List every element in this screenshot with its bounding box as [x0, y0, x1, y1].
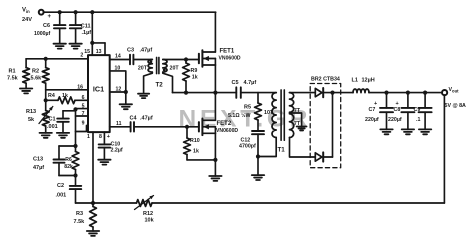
- svg-text:Vout: Vout: [449, 87, 460, 94]
- pin 7 wire: [76, 111, 89, 117]
- svg-text:IC1: IC1: [93, 84, 104, 93]
- wire T1 secondary bottom to BR2: [290, 138, 316, 158]
- ground below C12: [252, 175, 264, 180]
- rectifier BR2 dashed box: [310, 77, 341, 168]
- svg-text:220µf: 220µf: [388, 117, 402, 123]
- svg-text:FET1: FET1: [220, 49, 235, 55]
- svg-text:.001: .001: [47, 124, 58, 130]
- junction pins 15/13: [90, 41, 94, 45]
- wire +24V top rail: [44, 11, 216, 13]
- svg-text:R2: R2: [32, 68, 39, 74]
- svg-text:C2: C2: [57, 183, 64, 189]
- transformer T1 primary 10T: [258, 93, 276, 157]
- pin 11 wire: [110, 121, 131, 127]
- ground below C10: [98, 160, 110, 165]
- capacitor C4 .47uF: [130, 115, 153, 131]
- resistor R2 5.6k: [31, 59, 50, 101]
- svg-text:.1: .1: [416, 117, 420, 123]
- watermark: [179, 105, 312, 132]
- junction BR2 output: [330, 91, 334, 95]
- svg-text:9: 9: [82, 120, 85, 126]
- pin 13 wire: [92, 43, 105, 55]
- ground below C11: [69, 44, 81, 49]
- pin 6 label: [82, 95, 85, 101]
- svg-text:C6: C6: [43, 23, 50, 29]
- svg-text:T1: T1: [278, 147, 286, 154]
- svg-text:6: 6: [82, 95, 85, 101]
- junction R10 top: [185, 125, 189, 129]
- svg-text:.47µf: .47µf: [140, 115, 153, 121]
- transistor FET1 VN0600D: [199, 49, 241, 67]
- wire pins 5-7-9 vertical: [75, 109, 77, 146]
- svg-text:R12: R12: [143, 211, 153, 217]
- pin 16 wire: [46, 84, 88, 90]
- capacitor C6 1000uF: [34, 12, 65, 44]
- svg-text:5k: 5k: [28, 117, 35, 123]
- junction C13/R6 bottom: [73, 173, 77, 177]
- junction C9: [423, 91, 427, 95]
- capacitor C10 2.2uF: [99, 141, 123, 159]
- node Vout output terminal: [442, 87, 466, 109]
- ground below C6: [54, 44, 66, 49]
- svg-text:R13: R13: [26, 109, 36, 115]
- ground below C9: [419, 129, 431, 134]
- junction R2 top: [44, 57, 48, 61]
- wire snubber to ground: [257, 157, 259, 176]
- transformer T2 primary 20T: [138, 60, 152, 94]
- svg-text:R5: R5: [244, 105, 251, 111]
- svg-text:220µf: 220µf: [365, 117, 379, 123]
- ground below pins 10/12: [120, 104, 132, 109]
- resistor R5 5.1ohm: [228, 93, 261, 131]
- svg-text:.47µf: .47µf: [140, 48, 153, 54]
- label T2: [156, 81, 164, 88]
- svg-text:T2: T2: [156, 81, 164, 88]
- inductor L1 12uH: [352, 78, 375, 93]
- svg-text:7.5k: 7.5k: [74, 219, 86, 225]
- junction R2/R4/R13: [44, 98, 48, 102]
- transformer T1 secondary upper 7T: [290, 93, 301, 114]
- pin 8 wire: [99, 132, 110, 144]
- svg-text:FET2: FET2: [217, 121, 232, 127]
- svg-text:C7: C7: [369, 107, 376, 113]
- junction at IC supply drop: [90, 10, 94, 14]
- wire FET1 source to node A: [214, 65, 216, 93]
- svg-text:C5: C5: [232, 80, 239, 86]
- wire Vin to IC1 pins 15 13: [91, 12, 93, 43]
- wire BR2 bottom cathode: [323, 93, 332, 157]
- transformer T2 secondary 20T: [163, 60, 180, 93]
- svg-text:+: +: [374, 101, 377, 107]
- wire T1 secondary top to BR2: [290, 92, 316, 94]
- node Vin input terminal: [22, 8, 44, 24]
- resistor R9 1k: [183, 60, 198, 93]
- resistor R6 82k: [64, 146, 79, 176]
- junction FET2 source: [213, 158, 217, 162]
- svg-text:R1: R1: [9, 68, 16, 74]
- capacitor C7 220uF: [365, 93, 393, 130]
- svg-text:4700pf: 4700pf: [239, 144, 256, 150]
- svg-text:82k: 82k: [64, 164, 73, 170]
- svg-text:1k: 1k: [193, 149, 199, 155]
- pin 12 wire: [110, 86, 126, 92]
- capacitor C1 .001: [47, 111, 76, 133]
- wire C3 to T2: [133, 59, 152, 61]
- svg-text:C13: C13: [33, 157, 43, 163]
- junction at C11: [74, 10, 78, 14]
- svg-text:5V @ 8A: 5V @ 8A: [445, 103, 467, 109]
- junction R9 bottom: [184, 91, 188, 95]
- svg-text:VN0600D: VN0600D: [219, 56, 241, 62]
- wire T1 center tap: [290, 113, 302, 127]
- svg-text:16: 16: [77, 84, 83, 90]
- svg-text:1: 1: [87, 134, 90, 140]
- svg-text:1000µf: 1000µf: [34, 31, 51, 37]
- ground below R1: [20, 89, 32, 94]
- wire C5 to T1: [241, 92, 276, 94]
- pin 9 wire: [76, 120, 89, 131]
- svg-text:2: 2: [80, 53, 83, 59]
- diode BR2 top: [315, 88, 323, 97]
- svg-text:7: 7: [82, 111, 85, 117]
- svg-text:C4: C4: [130, 115, 138, 121]
- capacitor C9 .1: [414, 93, 432, 130]
- junction at C6: [58, 10, 62, 14]
- ground below FET2: [209, 176, 221, 181]
- svg-text:2.2µf: 2.2µf: [111, 147, 123, 153]
- wire R10 bottom to FET2 source: [187, 159, 215, 161]
- wire L1 to Vout: [369, 92, 442, 94]
- svg-text:R6: R6: [65, 157, 72, 163]
- svg-text:L1: L1: [352, 78, 358, 84]
- svg-text:VN0600D: VN0600D: [216, 128, 238, 134]
- resistor R1 7.5k: [7, 59, 30, 89]
- resistor R3 7.5k: [74, 203, 97, 231]
- transistor FET2 VN0600D: [199, 119, 239, 136]
- wire BR2 top cathode: [323, 92, 332, 94]
- svg-text:10T: 10T: [264, 110, 274, 116]
- wire Vout feedback drop: [443, 95, 445, 203]
- capacitor C8 220uF: [388, 93, 414, 130]
- svg-text:11: 11: [116, 121, 122, 127]
- pin 10 wire: [110, 65, 126, 92]
- ground below R13: [40, 133, 52, 138]
- pin 2 wire: [26, 53, 88, 59]
- transformer T2 core: [157, 57, 159, 73]
- junction node A: [213, 91, 217, 95]
- svg-text:5.1Ω ½W: 5.1Ω ½W: [228, 112, 251, 119]
- svg-text:C1: C1: [49, 116, 56, 122]
- diode BR2 bottom: [315, 152, 323, 161]
- svg-text:1k: 1k: [62, 93, 68, 99]
- svg-text:+: +: [396, 101, 399, 107]
- pin 15 wire: [84, 43, 92, 55]
- svg-text:R10: R10: [190, 138, 200, 144]
- svg-text:R4: R4: [48, 93, 55, 99]
- ground below T2 primary: [138, 94, 149, 98]
- svg-text:Vin: Vin: [22, 8, 30, 14]
- capacitor C12 4700pF: [239, 131, 264, 157]
- capacitor C3 .47uF: [127, 48, 152, 65]
- capacitor C2 .001: [56, 176, 82, 204]
- transformer T1 core: [281, 90, 284, 140]
- wire C4 to FET2 gate: [134, 126, 199, 128]
- wire feedback rail right: [152, 202, 444, 204]
- svg-text:C11: C11: [81, 23, 91, 29]
- ground below C8: [402, 129, 414, 134]
- junction pins 10/12: [124, 90, 128, 94]
- resistor R4 1k: [46, 93, 88, 104]
- pin 5 wire: [76, 103, 89, 109]
- svg-text:8: 8: [99, 134, 102, 140]
- junction T1 primary bottom: [256, 154, 260, 158]
- wire BR2 to L1: [333, 92, 354, 94]
- junction pin1/R3: [91, 201, 95, 205]
- svg-text:20T: 20T: [138, 66, 148, 72]
- svg-text:7.5k: 7.5k: [7, 76, 19, 82]
- svg-text:24V: 24V: [22, 17, 32, 23]
- svg-text:C3: C3: [127, 48, 134, 54]
- svg-text:5.6k: 5.6k: [31, 76, 43, 82]
- svg-text:R9: R9: [191, 68, 198, 74]
- wire feedback rail left: [76, 202, 137, 204]
- svg-text:12µH: 12µH: [362, 78, 375, 84]
- svg-text:20T: 20T: [170, 65, 180, 71]
- svg-text:C8: C8: [394, 107, 401, 113]
- wire FET2 drain to node A: [214, 93, 216, 121]
- svg-text:47µf: 47µf: [33, 165, 44, 171]
- svg-text:+: +: [48, 14, 52, 20]
- wire node A: [173, 92, 237, 94]
- junction C7: [384, 91, 388, 95]
- label T1: [278, 147, 286, 154]
- resistor R10 1k: [184, 127, 200, 160]
- junction pin5: [73, 107, 77, 111]
- op-amp IC1 regulating PWM box: [88, 55, 110, 132]
- svg-text:12: 12: [116, 86, 122, 92]
- wire FET1 drain to rail: [214, 12, 216, 52]
- svg-text:5: 5: [82, 103, 85, 109]
- pin 1 wire: [87, 132, 93, 203]
- svg-text:C9: C9: [414, 107, 421, 113]
- svg-text:4.7µf: 4.7µf: [244, 80, 257, 86]
- pin 14 wire: [110, 53, 130, 59]
- capacitor C5 4.7uF: [232, 80, 257, 98]
- svg-text:BR2 CTB34: BR2 CTB34: [311, 77, 340, 83]
- ground below C1: [57, 133, 69, 138]
- svg-text:10: 10: [115, 65, 121, 71]
- ground at T1 center tap: [297, 127, 307, 131]
- ground below R3: [87, 231, 99, 236]
- svg-text:R3: R3: [76, 211, 83, 217]
- wire to ground pins 10/12: [125, 92, 127, 104]
- wire FET2 source down: [214, 133, 216, 176]
- svg-text:.001: .001: [56, 193, 67, 199]
- transformer T1 secondary lower 7T: [290, 114, 301, 138]
- svg-text:.1µf: .1µf: [82, 30, 92, 36]
- potentiometer R12 10k: [135, 196, 155, 224]
- wire T2 secondary to FET1 gate: [163, 59, 199, 61]
- svg-text:14: 14: [115, 53, 121, 59]
- svg-text:1k: 1k: [192, 75, 198, 81]
- svg-text:+: +: [107, 134, 110, 140]
- potentiometer R13 5k: [26, 100, 53, 133]
- junction C13/R6 top: [73, 144, 77, 148]
- capacitor C11 0.1uF: [70, 12, 91, 44]
- svg-text:10k: 10k: [145, 218, 155, 224]
- junction C8: [406, 91, 410, 95]
- ground below C7: [380, 129, 392, 134]
- junction R9 top: [184, 57, 188, 61]
- capacitor C13 47uF: [33, 146, 76, 176]
